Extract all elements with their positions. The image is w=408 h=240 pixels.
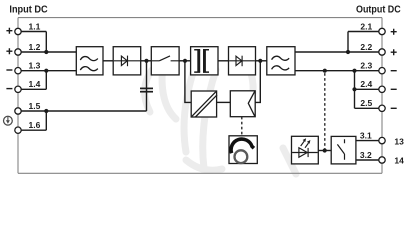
svg-text:1.5: 1.5: [28, 101, 40, 111]
svg-text:1.3: 1.3: [28, 61, 40, 71]
terminal 1.4 (-): [6, 79, 46, 92]
svg-text:2.1: 2.1: [360, 21, 372, 31]
output rectifier diode block: [229, 47, 256, 75]
junction node 2.3: [352, 69, 356, 73]
terminal 1.6: [15, 120, 47, 133]
terminal 2.1 (+): [348, 21, 397, 34]
terminal 2.2 (+): [360, 42, 396, 55]
wire 1.3 to 1.4: [45, 71, 47, 90]
svg-text:2.2: 2.2: [360, 42, 372, 52]
svg-text:Output DC: Output DC: [356, 5, 401, 16]
LED indicator block: [292, 136, 319, 164]
junction node 1.1/1.2: [44, 50, 48, 54]
svg-text:Input DC: Input DC: [9, 5, 47, 16]
wire output minus row (2.3): [295, 70, 379, 72]
terminal 1.5: [15, 101, 147, 114]
capacitor (input buffer): [140, 61, 153, 111]
protective earth symbol: [4, 116, 13, 125]
svg-text:1.4: 1.4: [28, 79, 40, 89]
junction node 2.1/2.2: [346, 50, 350, 54]
terminal 2.4 (-): [355, 79, 397, 92]
output filter block: [267, 47, 295, 75]
relay signal contact block: [331, 136, 356, 164]
svg-text:1.2: 1.2: [28, 42, 40, 52]
terminal 3.1 (13): [356, 131, 404, 147]
svg-text:1.1: 1.1: [28, 21, 40, 31]
junction node feedback tap: [258, 59, 262, 63]
wire rectifier to switching stage: [141, 60, 152, 62]
svg-text:3.1: 3.1: [360, 131, 372, 141]
potentiometer (output adjustment): [229, 136, 257, 164]
wire output rectifier to output filter: [256, 60, 267, 62]
terminal 1.2 (+): [6, 42, 76, 55]
wire PWM control drop: [185, 61, 191, 103]
terminal 3.2 (14): [356, 150, 404, 166]
wire transformer to output rectifier: [218, 60, 229, 62]
terminal 2.5 (-): [355, 98, 397, 111]
svg-text:2.4: 2.4: [360, 79, 372, 89]
wire 1.1 to 1.2: [45, 32, 47, 53]
wire filter to input rectifier: [103, 60, 113, 62]
wire 2.3 to 2.5: [354, 71, 356, 109]
switching stage block: [151, 47, 179, 75]
wire 2.1 to 2.2: [347, 32, 349, 53]
svg-text:1.6: 1.6: [28, 120, 40, 130]
junction node 1.5/1.6: [44, 109, 48, 113]
wire LED to relay: [318, 150, 331, 152]
svg-text:2.5: 2.5: [360, 98, 372, 108]
junction node monitor tap: [323, 69, 327, 73]
svg-text:13: 13: [394, 136, 404, 146]
svg-text:3.2: 3.2: [360, 150, 372, 160]
wire output plus row (2.2): [295, 51, 379, 53]
terminal 1.1 (+): [6, 21, 46, 34]
terminal 2.3 (-): [360, 61, 396, 74]
svg-text:14: 14: [394, 156, 404, 166]
dashed monitor wire down: [324, 73, 326, 149]
wire feedback regulator up to output node: [255, 61, 260, 103]
junction node capacitor tap: [144, 59, 148, 63]
junction node PWM tap: [183, 59, 187, 63]
wire 1.5 to 1.6: [45, 111, 47, 130]
junction node 2.4: [352, 87, 356, 91]
junction node LED/relay: [323, 148, 327, 152]
terminal 1.3 (-): [6, 61, 76, 74]
wire switching stage to transformer: [179, 60, 191, 62]
transformer block: [191, 47, 218, 75]
svg-text:2.3: 2.3: [360, 61, 372, 71]
PWM controller block (DC/DC symbol): [191, 91, 217, 117]
feedback regulator block: [230, 91, 255, 117]
dashed wire regulator to potentiometer: [241, 117, 243, 136]
junction node 1.3/1.4: [44, 69, 48, 73]
input rectifier diode block: [113, 47, 141, 75]
wire controller to feedback regulator: [217, 101, 231, 103]
input filter block: [76, 47, 103, 75]
